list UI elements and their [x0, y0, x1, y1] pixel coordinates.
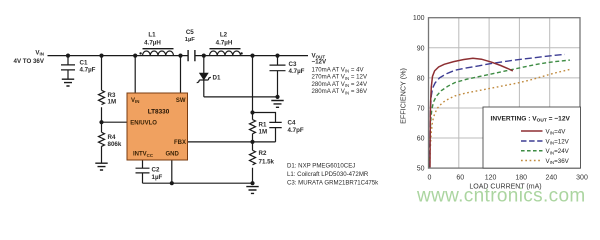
svg-text:170mA AT VIN = 4V: 170mA AT VIN = 4V [312, 66, 365, 73]
svg-text:C4: C4 [288, 119, 296, 126]
svg-text:D1: D1 [213, 75, 221, 82]
svg-text:50: 50 [417, 166, 425, 173]
capacitor C4 [269, 122, 281, 127]
svg-text:100: 100 [413, 15, 425, 22]
legend line 12V [521, 140, 543, 142]
wire R3 drop [101, 56, 103, 123]
node FBX [250, 140, 254, 144]
svg-text:VIN=12V: VIN=12V [546, 138, 570, 145]
wire D1 drop [203, 56, 205, 97]
svg-text:C3: MURATA GRM21BR71C475k: C3: MURATA GRM21BR71C475k [287, 180, 379, 187]
inductor L1 [143, 51, 174, 56]
svg-text:4V TO 36V: 4V TO 36V [14, 58, 45, 65]
wire C1 drop [67, 56, 69, 79]
wire D1 to C3 ground node [204, 96, 278, 98]
svg-text:4.7µH: 4.7µH [216, 39, 233, 46]
svg-text:1µF: 1µF [152, 174, 163, 181]
wire FBX [188, 141, 253, 143]
svg-text:R4: R4 [108, 134, 116, 141]
op-amp U1 : LT8330 chip body [127, 93, 188, 160]
wire VIN pin [134, 56, 136, 93]
svg-text:INVERTING : VOUT = −12V: INVERTING : VOUT = −12V [491, 115, 571, 123]
ground below C1 [62, 79, 74, 86]
legend line 4V [521, 130, 543, 132]
svg-text:270mA AT VIN = 12V: 270mA AT VIN = 12V [312, 74, 368, 81]
resistor R2 [250, 150, 256, 164]
y axis tick labels [413, 15, 425, 172]
svg-text:1M: 1M [259, 129, 268, 136]
svg-text:R1: R1 [259, 121, 267, 128]
node R1 top [250, 110, 254, 114]
wire R2 leads [252, 142, 254, 183]
node VIN/C1 [66, 54, 70, 58]
wire sense column [252, 56, 254, 113]
curve VIN=4V solid [430, 58, 513, 167]
svg-text:280mA AT VIN = 36V: 280mA AT VIN = 36V [312, 88, 368, 95]
junction dots [66, 52, 280, 185]
svg-text:C1: C1 [80, 60, 88, 67]
ground below R4 [95, 163, 107, 170]
wire INTVCC / C2 [142, 160, 144, 183]
ground at D1/C3 node [271, 101, 283, 108]
svg-text:806k: 806k [108, 141, 122, 148]
node D1/C3 gnd [275, 95, 279, 99]
curve VIN=36V dotted [430, 69, 570, 167]
svg-text:GND: GND [166, 152, 180, 158]
curve VIN=12V dashed [430, 54, 565, 167]
svg-text:60: 60 [456, 174, 464, 181]
svg-text:VIN=24V: VIN=24V [546, 148, 570, 155]
svg-text:80: 80 [417, 75, 425, 82]
legend line 24V [521, 150, 543, 152]
output current annotations [287, 66, 379, 186]
wire GND pin [171, 160, 173, 183]
wire SW pin [180, 56, 182, 93]
svg-text:L2: L2 [220, 31, 228, 38]
wire top rail right segment [195, 55, 308, 57]
svg-text:R2: R2 [259, 150, 267, 157]
svg-text:1M: 1M [108, 99, 117, 106]
polarity dot L2 [240, 52, 242, 54]
svg-text:L1: Coilcraft LPD5030-472MR: L1: Coilcraft LPD5030-472MR [287, 171, 369, 178]
svg-text:SW: SW [176, 98, 186, 104]
node C3 top [275, 54, 279, 58]
wire R4 top [101, 122, 103, 163]
svg-text:70: 70 [417, 106, 425, 113]
node EN divider [99, 120, 103, 124]
node R2 bottom [250, 181, 254, 185]
chart grid [429, 18, 581, 168]
inductor L2 [210, 51, 241, 56]
svg-text:C3: C3 [289, 61, 297, 68]
svg-text:VIN: VIN [131, 98, 139, 104]
svg-text:60: 60 [417, 136, 425, 143]
svg-text:4.7µF: 4.7µF [289, 68, 305, 75]
wire C3 drop [277, 56, 279, 97]
svg-text:D1: NXP PMEG6010CEJ: D1: NXP PMEG6010CEJ [287, 162, 355, 169]
svg-text:300: 300 [576, 174, 588, 181]
node C5/D1/L2 [202, 54, 206, 58]
node SW/L1 [178, 54, 182, 58]
svg-text:FBX: FBX [174, 140, 186, 146]
svg-text:INTVCC: INTVCC [133, 152, 154, 158]
svg-text:EN/UVLO: EN/UVLO [130, 121, 157, 127]
x axis tick labels [428, 174, 588, 181]
wire EN/UVLO [102, 121, 128, 123]
schematic labels [14, 29, 327, 181]
svg-text:120: 120 [485, 174, 497, 181]
capacitor C2 [136, 168, 150, 173]
resistor R3 [99, 90, 105, 104]
svg-text:VIN=4V: VIN=4V [546, 128, 567, 135]
svg-text:−12V: −12V [312, 59, 327, 66]
svg-text:VIN=36V: VIN=36V [546, 158, 570, 165]
resistor R1 [250, 120, 256, 134]
svg-text:LT8330: LT8330 [148, 108, 170, 115]
wire top rail left segment [48, 55, 189, 57]
curve VIN=24V dashed [430, 60, 570, 167]
svg-text:EFFICIENCY (%): EFFICIENCY (%) [399, 68, 408, 124]
svg-text:C5: C5 [186, 29, 194, 36]
capacitor C1 [61, 65, 75, 70]
node L2/sense [250, 54, 254, 58]
svg-text:0: 0 [428, 174, 432, 181]
svg-text:180: 180 [515, 174, 527, 181]
capacitor C3 [270, 65, 286, 71]
polarity dot L1 [139, 52, 141, 54]
node GND pin rail [170, 181, 174, 185]
legend line 36V [521, 160, 543, 162]
svg-text:L1: L1 [148, 31, 156, 38]
svg-text:90: 90 [417, 45, 425, 52]
wire C4 top loop [253, 113, 276, 123]
legend box [483, 107, 581, 168]
svg-text:280mA AT VIN = 24V: 280mA AT VIN = 24V [312, 81, 368, 88]
ground below R2 [246, 187, 258, 194]
svg-text:www.cntronics.com: www.cntronics.com [416, 186, 586, 207]
node R3 top [99, 54, 103, 58]
wire bottom rail [143, 182, 253, 184]
diode D1 (Schottky) [197, 73, 211, 82]
svg-text:1µF: 1µF [185, 37, 196, 43]
capacitor C5 [188, 50, 195, 61]
resistor R4 [99, 132, 105, 146]
node VIN pin [133, 54, 137, 58]
svg-text:C2: C2 [152, 167, 160, 174]
svg-text:240: 240 [545, 174, 557, 181]
svg-text:71.5k: 71.5k [259, 158, 275, 165]
svg-text:4.7µF: 4.7µF [80, 67, 96, 74]
chart frame [429, 18, 581, 168]
wire R1 leads [252, 113, 254, 142]
svg-text:4.7µH: 4.7µH [144, 39, 161, 46]
wire C4 bottom loop [253, 128, 276, 142]
svg-text:4.7pF: 4.7pF [288, 127, 304, 134]
